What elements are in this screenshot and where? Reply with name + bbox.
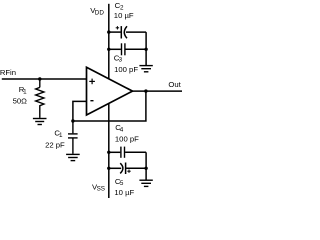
svg-text:Out: Out — [168, 80, 181, 89]
svg-text:100 pF: 100 pF — [114, 65, 138, 74]
svg-text:SS: SS — [97, 186, 105, 193]
svg-text:DD: DD — [95, 10, 105, 17]
svg-text:1: 1 — [23, 88, 27, 95]
svg-text:10 µF: 10 µF — [114, 11, 134, 20]
svg-text:3: 3 — [119, 56, 123, 63]
svg-text:4: 4 — [120, 126, 124, 133]
svg-text:RFin: RFin — [0, 68, 16, 77]
svg-text:10 µF: 10 µF — [114, 188, 134, 197]
svg-text:2: 2 — [120, 4, 124, 11]
svg-text:100 pF: 100 pF — [115, 134, 139, 143]
svg-text:22 pF: 22 pF — [45, 140, 65, 149]
svg-text:50Ω: 50Ω — [13, 96, 28, 105]
svg-text:5: 5 — [120, 180, 124, 187]
svg-text:1: 1 — [59, 132, 63, 139]
